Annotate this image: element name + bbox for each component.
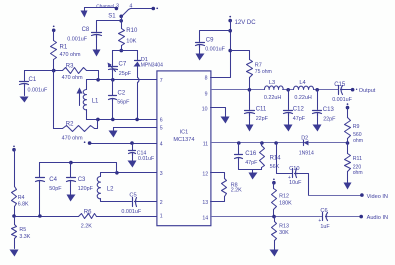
svg-text:C8: C8 bbox=[82, 27, 90, 33]
svg-text:25pF: 25pF bbox=[119, 71, 132, 77]
svg-text:C1: C1 bbox=[29, 77, 37, 83]
svg-text:56K: 56K bbox=[270, 164, 280, 170]
svg-text:2.2K: 2.2K bbox=[81, 224, 92, 230]
ground C8 bbox=[93, 50, 101, 57]
svg-text:+: + bbox=[288, 175, 291, 181]
svg-text:3.3K: 3.3K bbox=[19, 234, 30, 240]
svg-text:L1: L1 bbox=[92, 99, 99, 105]
resistor R8 bbox=[211, 173, 225, 179]
resistor R14 bbox=[260, 141, 264, 145]
svg-text:10uF: 10uF bbox=[289, 180, 302, 186]
svg-text:R5: R5 bbox=[19, 227, 26, 233]
svg-text:R7: R7 bbox=[255, 63, 262, 69]
svg-text:22pF: 22pF bbox=[323, 116, 336, 122]
svg-text:R14: R14 bbox=[270, 155, 282, 161]
ground C1 bbox=[20, 97, 29, 103]
capacitor C10 bbox=[274, 141, 278, 145]
capacitor C15 bbox=[338, 86, 340, 95]
svg-text:C3: C3 bbox=[78, 177, 86, 183]
ground C9 bbox=[196, 54, 205, 61]
ground C16/R14 bbox=[252, 170, 254, 174]
capacitor C9 bbox=[200, 31, 231, 42]
resistor R7 bbox=[231, 51, 250, 60]
svg-text:50pF: 50pF bbox=[49, 186, 62, 192]
wire pin 11 line bbox=[211, 142, 304, 144]
svg-text:R9: R9 bbox=[353, 124, 360, 130]
svg-text:C5: C5 bbox=[129, 193, 136, 199]
wire pin 9 line bbox=[211, 89, 265, 91]
svg-text:R12: R12 bbox=[279, 194, 289, 200]
node Audio IN bbox=[359, 215, 363, 219]
svg-text:S1: S1 bbox=[108, 13, 116, 19]
capacitor C4 bbox=[39, 163, 41, 178]
ground R5 bbox=[10, 250, 19, 257]
svg-text:5: 5 bbox=[160, 126, 163, 132]
svg-text:0.001uF: 0.001uF bbox=[205, 46, 225, 52]
svg-text:C10: C10 bbox=[289, 166, 299, 172]
wire pin 4 bbox=[90, 143, 157, 145]
svg-text:10: 10 bbox=[202, 106, 208, 112]
diode D2 1N914 bbox=[303, 141, 305, 146]
svg-text:22pF: 22pF bbox=[256, 116, 269, 122]
capacitor C14 bbox=[132, 144, 134, 151]
svg-text:D2: D2 bbox=[301, 136, 308, 142]
svg-text:470 ohm: 470 ohm bbox=[62, 135, 83, 141]
node Output bbox=[351, 88, 355, 92]
svg-text:Audio IN: Audio IN bbox=[367, 215, 388, 221]
capacitor C8 bbox=[97, 21, 122, 32]
svg-text:4: 4 bbox=[160, 142, 163, 148]
svg-text:9: 9 bbox=[205, 92, 208, 98]
svg-text:120pF: 120pF bbox=[78, 186, 94, 192]
svg-text:R6: R6 bbox=[84, 210, 92, 216]
svg-text:470 ohm: 470 ohm bbox=[60, 52, 81, 58]
svg-text:2.2K: 2.2K bbox=[231, 188, 242, 194]
resistor R5 bbox=[14, 217, 16, 225]
inductor L2 bbox=[101, 173, 117, 177]
svg-text:R3: R3 bbox=[66, 64, 74, 70]
capacitor C5 bbox=[132, 198, 134, 207]
svg-text:0.01uF: 0.01uF bbox=[138, 156, 154, 162]
svg-text:ohm: ohm bbox=[353, 170, 363, 176]
svg-text:0.001uF: 0.001uF bbox=[121, 209, 141, 215]
svg-text:Channel: Channel bbox=[96, 3, 114, 9]
svg-text:C11: C11 bbox=[256, 107, 267, 113]
svg-text:C4: C4 bbox=[49, 177, 57, 183]
svg-text:0.001uF: 0.001uF bbox=[67, 36, 87, 42]
svg-text:0.001uF: 0.001uF bbox=[28, 88, 48, 94]
capacitor C2 bbox=[112, 80, 114, 96]
resistor R9 bbox=[347, 103, 349, 105]
ground C12 bbox=[284, 125, 293, 132]
ground R13 bbox=[270, 250, 279, 257]
svg-text:13: 13 bbox=[202, 200, 208, 206]
svg-text:0.22uH: 0.22uH bbox=[294, 95, 311, 101]
node bias terminal bbox=[13, 145, 15, 147]
resistor R3 bbox=[54, 70, 63, 72]
svg-text:R2: R2 bbox=[66, 122, 74, 128]
svg-text:C6: C6 bbox=[320, 208, 327, 214]
capacitor C6 bbox=[322, 213, 324, 221]
capacitor C11 bbox=[249, 90, 251, 110]
svg-text:3: 3 bbox=[116, 3, 119, 9]
svg-text:R1: R1 bbox=[60, 44, 68, 50]
capacitor C1 bbox=[25, 70, 54, 72]
svg-text:1: 1 bbox=[160, 214, 163, 220]
op-amp U1 IC1 MC1374 box bbox=[157, 71, 211, 226]
svg-text:6.8K: 6.8K bbox=[18, 202, 29, 208]
resistor R4 bbox=[14, 150, 16, 187]
wire pin7 line bbox=[87, 79, 157, 81]
svg-text:R11: R11 bbox=[353, 156, 362, 162]
capacitor C12 bbox=[288, 90, 290, 110]
svg-text:470 ohm: 470 ohm bbox=[62, 75, 83, 81]
wire pin6 line bbox=[87, 119, 157, 121]
svg-text:75 ohm: 75 ohm bbox=[255, 69, 272, 75]
capacitor C13 bbox=[317, 90, 319, 110]
svg-text:Video IN: Video IN bbox=[367, 194, 388, 200]
svg-text:12V DC: 12V DC bbox=[235, 20, 257, 26]
capacitor C3 bbox=[70, 163, 72, 178]
wire pin 10 to ground bbox=[211, 108, 226, 117]
inductor L3 bbox=[264, 86, 283, 90]
svg-text:6: 6 bbox=[160, 118, 163, 124]
ground C14 bbox=[128, 161, 137, 168]
diode D1 MPN3404 bbox=[137, 51, 139, 61]
svg-text:MC1374: MC1374 bbox=[173, 137, 194, 143]
svg-text:L4: L4 bbox=[299, 80, 305, 86]
wire S1 common to R10 bbox=[121, 17, 123, 29]
svg-text:47pF: 47pF bbox=[245, 160, 258, 166]
resistor R10 bbox=[119, 29, 125, 46]
ground C13 bbox=[313, 125, 322, 132]
svg-text:47pF: 47pF bbox=[293, 116, 306, 122]
svg-text:R10: R10 bbox=[126, 28, 138, 34]
svg-text:Output: Output bbox=[359, 88, 376, 94]
svg-text:+: + bbox=[318, 218, 321, 224]
svg-text:0.22uH: 0.22uH bbox=[264, 95, 281, 101]
svg-text:C16: C16 bbox=[245, 151, 257, 157]
svg-text:R4: R4 bbox=[18, 195, 25, 201]
svg-text:MPN3404: MPN3404 bbox=[141, 63, 163, 69]
svg-text:56pF: 56pF bbox=[117, 100, 130, 106]
svg-text:1N914: 1N914 bbox=[299, 151, 314, 157]
capacitor C7 (variable) bbox=[112, 51, 114, 67]
wire pin 14 audio line bbox=[211, 216, 323, 218]
svg-text:7: 7 bbox=[160, 78, 163, 84]
svg-text:IC1: IC1 bbox=[180, 130, 189, 136]
svg-text:C7: C7 bbox=[119, 62, 127, 68]
wire pin 5 to ground bbox=[114, 127, 157, 129]
svg-text:C15: C15 bbox=[334, 82, 346, 88]
svg-text:180K: 180K bbox=[279, 201, 292, 207]
node +12V DC bbox=[229, 16, 231, 18]
svg-text:10K: 10K bbox=[126, 38, 136, 44]
resistor R2 bbox=[53, 71, 55, 129]
svg-text:R13: R13 bbox=[279, 224, 289, 230]
svg-text:ohm: ohm bbox=[353, 138, 363, 144]
svg-text:3: 3 bbox=[160, 171, 163, 177]
svg-text:30K: 30K bbox=[279, 230, 289, 236]
svg-text:L2: L2 bbox=[107, 187, 114, 193]
ground C3 bbox=[67, 195, 76, 202]
resistor R6 bbox=[15, 216, 79, 218]
svg-text:14: 14 bbox=[202, 215, 208, 221]
svg-text:L3: L3 bbox=[269, 80, 275, 86]
resistor R11 bbox=[347, 143, 349, 154]
svg-text:C2: C2 bbox=[118, 90, 126, 96]
capacitor C16 bbox=[237, 141, 241, 145]
inductor L1 bbox=[86, 80, 88, 90]
ground C11 bbox=[246, 125, 254, 132]
node Channel-3 terminal bbox=[85, 7, 117, 9]
wire pin 3 bbox=[117, 172, 157, 174]
svg-text:1uF: 1uF bbox=[320, 224, 330, 230]
ground R11 bbox=[344, 183, 352, 190]
resistor R12 bbox=[273, 178, 275, 180]
node Video IN bbox=[309, 195, 362, 197]
svg-text:2: 2 bbox=[160, 200, 163, 206]
svg-text:C12: C12 bbox=[293, 107, 305, 113]
resistor R13 bbox=[274, 217, 276, 222]
svg-text:12: 12 bbox=[202, 172, 208, 178]
inductor L4 bbox=[294, 86, 314, 89]
svg-text:0.001uF: 0.001uF bbox=[332, 97, 352, 103]
wire pin 8 to 12V bbox=[211, 21, 231, 78]
svg-text:11: 11 bbox=[203, 142, 208, 148]
svg-text:8: 8 bbox=[205, 76, 208, 82]
svg-text:C9: C9 bbox=[206, 38, 214, 44]
svg-text:C13: C13 bbox=[323, 107, 335, 113]
wire top of C7/D1 bbox=[113, 50, 138, 52]
resistor R1 bbox=[53, 25, 55, 27]
